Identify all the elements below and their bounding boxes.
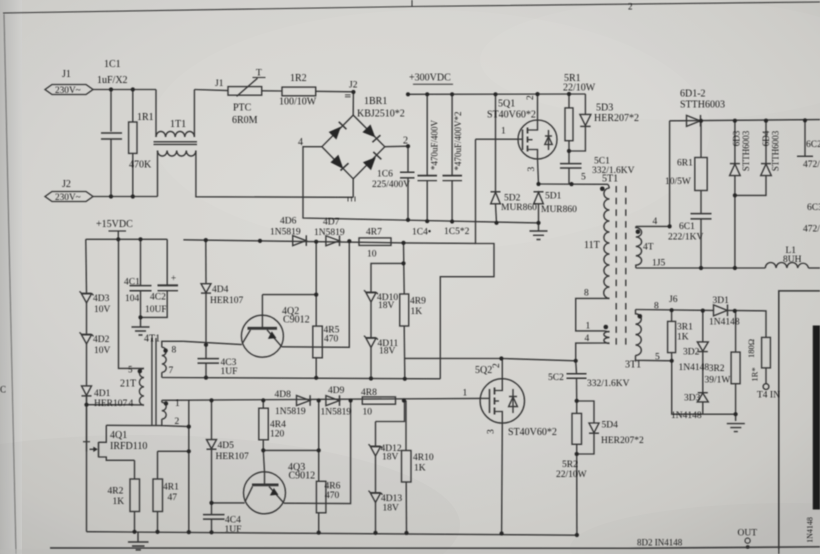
svg-text:10: 10 bbox=[363, 407, 373, 417]
svg-text:5Q1: 5Q1 bbox=[498, 99, 515, 110]
svg-text:4T1: 4T1 bbox=[144, 334, 160, 345]
svg-text:6D1-2: 6D1-2 bbox=[680, 89, 706, 100]
svg-text:4R6: 4R6 bbox=[325, 481, 341, 491]
svg-text:5: 5 bbox=[581, 173, 586, 183]
svg-text:1C6: 1C6 bbox=[377, 170, 393, 180]
svg-text:6R1: 6R1 bbox=[677, 159, 693, 169]
svg-text:10: 10 bbox=[367, 250, 377, 260]
svg-text:4D13: 4D13 bbox=[381, 494, 402, 504]
svg-text:6C1: 6C1 bbox=[679, 222, 695, 232]
svg-text:1N4148: 1N4148 bbox=[671, 411, 702, 421]
svg-text:6C2: 6C2 bbox=[806, 140, 820, 150]
svg-text:2: 2 bbox=[403, 136, 408, 147]
svg-text:T: T bbox=[256, 69, 262, 79]
svg-text:230V~: 230V~ bbox=[55, 193, 81, 203]
svg-text:KBJ2510*2: KBJ2510*2 bbox=[357, 109, 405, 120]
svg-text:472/: 472/ bbox=[803, 225, 820, 235]
svg-text:1J5: 1J5 bbox=[652, 258, 665, 268]
svg-text:J1: J1 bbox=[62, 69, 71, 80]
svg-text:3D2: 3D2 bbox=[683, 348, 700, 358]
svg-text:4R9: 4R9 bbox=[410, 296, 426, 306]
svg-text:1C1: 1C1 bbox=[104, 59, 121, 70]
svg-text:6R0M: 6R0M bbox=[232, 115, 258, 126]
svg-text:4R1: 4R1 bbox=[163, 482, 179, 492]
svg-text:4: 4 bbox=[585, 334, 590, 344]
svg-text:1K: 1K bbox=[411, 307, 423, 317]
svg-text:22/10W: 22/10W bbox=[563, 83, 596, 94]
svg-text:J6: J6 bbox=[669, 295, 678, 305]
svg-text:230V~: 230V~ bbox=[55, 86, 81, 96]
svg-text:T4 IN: T4 IN bbox=[757, 391, 780, 401]
svg-text:5: 5 bbox=[128, 365, 133, 375]
svg-text:6D4: 6D4 bbox=[761, 130, 771, 146]
svg-text:PTC: PTC bbox=[233, 103, 252, 114]
svg-text:104: 104 bbox=[125, 294, 140, 304]
svg-text:STTH6003: STTH6003 bbox=[741, 130, 751, 171]
svg-text:332/1.6KV: 332/1.6KV bbox=[587, 379, 630, 389]
svg-text:C: C bbox=[0, 385, 6, 395]
svg-text:ST40V60*2: ST40V60*2 bbox=[487, 110, 536, 121]
svg-text:6C3: 6C3 bbox=[807, 203, 820, 213]
svg-text:4: 4 bbox=[298, 137, 303, 148]
svg-text:2: 2 bbox=[628, 2, 633, 12]
svg-text:1N5819: 1N5819 bbox=[321, 407, 352, 417]
svg-text:120: 120 bbox=[270, 430, 285, 440]
svg-text:4: 4 bbox=[653, 217, 658, 227]
svg-text:ST40V60*2: ST40V60*2 bbox=[508, 427, 557, 438]
svg-text:10UF: 10UF bbox=[145, 305, 167, 315]
svg-text:8: 8 bbox=[172, 346, 177, 356]
svg-text:5D2: 5D2 bbox=[504, 194, 521, 204]
svg-text:IRFD110: IRFD110 bbox=[110, 441, 147, 452]
svg-text:4: 4 bbox=[129, 399, 134, 409]
svg-text:3: 3 bbox=[527, 167, 537, 172]
svg-text:3D3: 3D3 bbox=[684, 394, 701, 404]
svg-text:OUT: OUT bbox=[738, 529, 758, 539]
svg-text:3: 3 bbox=[487, 429, 497, 434]
svg-text:1C4•: 1C4• bbox=[412, 228, 431, 238]
svg-text:1C5*2: 1C5*2 bbox=[444, 227, 470, 237]
svg-text:10/5W: 10/5W bbox=[665, 177, 691, 187]
svg-text:J2: J2 bbox=[62, 179, 71, 190]
svg-text:1uF/X2: 1uF/X2 bbox=[97, 75, 128, 86]
svg-text:1T1: 1T1 bbox=[170, 119, 186, 130]
svg-text:1UF: 1UF bbox=[221, 367, 238, 377]
svg-text:4D2: 4D2 bbox=[93, 335, 110, 345]
svg-text:47: 47 bbox=[168, 493, 178, 503]
svg-text:1R2: 1R2 bbox=[290, 73, 307, 84]
svg-text:470: 470 bbox=[325, 491, 340, 501]
svg-text:2: 2 bbox=[492, 363, 502, 368]
svg-text:HER207*2: HER207*2 bbox=[601, 436, 644, 446]
svg-text:J2: J2 bbox=[349, 81, 358, 91]
svg-text:1: 1 bbox=[586, 322, 591, 332]
svg-text:18V: 18V bbox=[379, 347, 396, 357]
svg-text:3R1: 3R1 bbox=[677, 322, 693, 332]
svg-text:1N5819: 1N5819 bbox=[275, 407, 306, 417]
svg-text:10V: 10V bbox=[94, 346, 111, 356]
svg-text:1K: 1K bbox=[113, 497, 125, 507]
svg-text:8: 8 bbox=[654, 301, 659, 311]
svg-text:2: 2 bbox=[526, 95, 536, 100]
svg-text:4D4: 4D4 bbox=[212, 285, 229, 295]
svg-text:HER107: HER107 bbox=[210, 296, 244, 306]
svg-text:6D3: 6D3 bbox=[732, 130, 742, 146]
svg-text:5C2: 5C2 bbox=[548, 373, 564, 383]
svg-text:1R1: 1R1 bbox=[137, 112, 154, 123]
svg-text:1UF: 1UF bbox=[225, 525, 242, 535]
svg-text:222/1KV: 222/1KV bbox=[668, 232, 704, 242]
svg-text:3T1: 3T1 bbox=[625, 360, 641, 371]
svg-text:472/: 472/ bbox=[803, 160, 820, 170]
svg-text:5D4: 5D4 bbox=[602, 420, 619, 430]
svg-text:4C1: 4C1 bbox=[124, 278, 140, 288]
svg-text:4C2: 4C2 bbox=[150, 293, 166, 303]
svg-text:HER107: HER107 bbox=[94, 399, 128, 409]
svg-text:10V: 10V bbox=[94, 305, 111, 315]
svg-text:4R4: 4R4 bbox=[270, 420, 286, 430]
svg-text:4Q1: 4Q1 bbox=[110, 430, 127, 441]
svg-text:HER107: HER107 bbox=[216, 452, 250, 462]
svg-text:+300VDC: +300VDC bbox=[409, 73, 451, 84]
svg-text:1: 1 bbox=[501, 127, 506, 137]
svg-text:8D2 IN4148: 8D2 IN4148 bbox=[637, 538, 683, 548]
svg-text:5R2: 5R2 bbox=[562, 460, 578, 470]
svg-text:4D6: 4D6 bbox=[280, 216, 297, 226]
svg-text:18V: 18V bbox=[383, 503, 400, 513]
svg-text:STTH6003: STTH6003 bbox=[680, 100, 725, 111]
svg-text:100/10W: 100/10W bbox=[279, 97, 317, 108]
svg-text:5D1: 5D1 bbox=[545, 192, 562, 202]
svg-text:1: 1 bbox=[175, 399, 180, 409]
svg-text:4R2: 4R2 bbox=[108, 486, 124, 496]
svg-text:39/1W: 39/1W bbox=[705, 376, 731, 386]
svg-text:18V: 18V bbox=[382, 452, 399, 462]
svg-text:11T: 11T bbox=[584, 240, 600, 251]
svg-text:J1: J1 bbox=[215, 79, 224, 89]
svg-text:STTH6003: STTH6003 bbox=[770, 130, 780, 171]
svg-text:5T1: 5T1 bbox=[602, 174, 618, 185]
svg-text:C9012: C9012 bbox=[289, 470, 316, 481]
svg-text:225/400V: 225/400V bbox=[372, 180, 410, 190]
svg-text:HER207*2: HER207*2 bbox=[594, 113, 639, 124]
svg-text:4D7: 4D7 bbox=[323, 218, 340, 228]
svg-text:1N4148: 1N4148 bbox=[709, 318, 740, 328]
svg-text:+15VDC: +15VDC bbox=[96, 219, 133, 230]
svg-text:4R7: 4R7 bbox=[366, 228, 382, 238]
svg-text:MUR860: MUR860 bbox=[541, 205, 577, 215]
svg-text:1K: 1K bbox=[677, 333, 689, 343]
svg-text:18V: 18V bbox=[378, 301, 395, 311]
svg-text:3R2: 3R2 bbox=[709, 364, 725, 374]
svg-text:8UH: 8UH bbox=[783, 255, 802, 265]
svg-text:+: + bbox=[171, 273, 176, 283]
svg-text:4D9: 4D9 bbox=[328, 386, 345, 396]
svg-text:4D8: 4D8 bbox=[275, 390, 292, 400]
svg-text:4R10: 4R10 bbox=[413, 453, 434, 463]
svg-text:1K: 1K bbox=[414, 463, 426, 473]
svg-text:22/10W: 22/10W bbox=[556, 470, 587, 480]
svg-text:4R8: 4R8 bbox=[361, 388, 377, 398]
svg-text:5Q2: 5Q2 bbox=[475, 365, 492, 376]
svg-text:1R*: 1R* bbox=[749, 367, 759, 381]
svg-text:1: 1 bbox=[463, 388, 468, 398]
svg-text:470K: 470K bbox=[129, 160, 152, 171]
svg-text:4T: 4T bbox=[643, 243, 654, 253]
svg-text:180Ω: 180Ω bbox=[746, 339, 756, 358]
svg-text:*470uF/400V*2: *470uF/400V*2 bbox=[453, 111, 463, 170]
svg-text:C9012: C9012 bbox=[283, 315, 310, 326]
svg-text:21T: 21T bbox=[120, 379, 136, 390]
svg-text:7: 7 bbox=[169, 366, 174, 376]
svg-text:5D3: 5D3 bbox=[596, 103, 613, 114]
svg-text:4D1: 4D1 bbox=[94, 389, 111, 399]
svg-text:*470uF/400V: *470uF/400V bbox=[430, 120, 440, 171]
svg-text:1N4148: 1N4148 bbox=[806, 517, 815, 543]
svg-text:4D3: 4D3 bbox=[93, 294, 110, 304]
svg-text:3D1: 3D1 bbox=[713, 296, 730, 306]
svg-text:5: 5 bbox=[655, 353, 660, 363]
svg-text:8: 8 bbox=[584, 289, 589, 299]
svg-text:4D5: 4D5 bbox=[218, 441, 235, 451]
svg-text:1N5819: 1N5819 bbox=[270, 228, 301, 238]
svg-text:470: 470 bbox=[324, 334, 339, 344]
svg-text:2: 2 bbox=[175, 417, 180, 427]
svg-text:1N4148: 1N4148 bbox=[679, 363, 710, 373]
svg-text:MUR860: MUR860 bbox=[501, 203, 537, 213]
svg-text:1N5819: 1N5819 bbox=[314, 228, 345, 238]
svg-text:1BR1: 1BR1 bbox=[364, 96, 387, 107]
